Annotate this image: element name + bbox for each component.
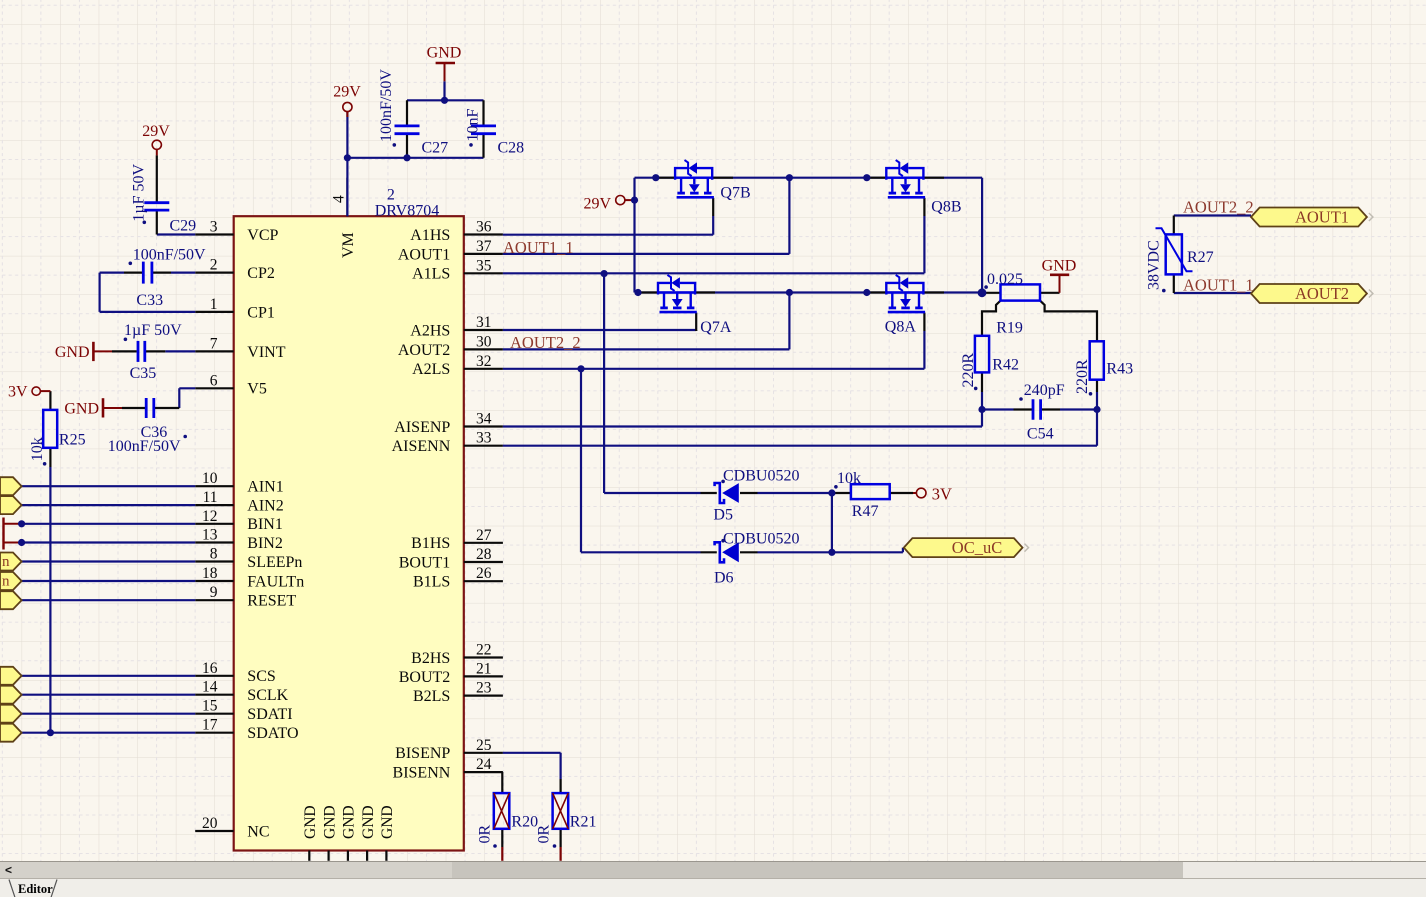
power rail stubs (left edge BIN1/BIN2) [4,518,22,550]
wire GND to cap rail [443,81,445,100]
svg-text:R47: R47 [852,503,879,520]
node sense junction (R19) [978,288,987,297]
svg-text:100nF/50V: 100nF/50V [108,438,181,455]
pin 32 A2LS [412,353,503,378]
svg-text:10: 10 [202,470,218,487]
svg-text:GND: GND [64,400,99,417]
pin link Q8B drain [867,177,886,179]
net label AOUT1_1 (pin 37) [503,238,574,257]
port (clipped, row 694.7) [0,686,22,704]
svg-text:0R: 0R [477,825,494,844]
wire left row y713.7 [22,713,196,715]
node junction (604.1,273.6) [601,270,608,277]
svg-text:8: 8 [210,546,218,563]
svg-text:220R: 220R [1074,359,1091,394]
svg-text:Q7B: Q7B [720,185,750,202]
wire AOUT2 net [503,293,790,350]
svg-text:15: 15 [202,698,218,715]
pin GND4 (IC bottom) [360,805,377,860]
svg-text:C28: C28 [498,140,525,157]
wire left row y486.2 [22,485,196,487]
wire A2LS to Q8A gate [503,331,925,369]
svg-text:14: 14 [202,679,218,696]
port (clipped, row 675.8) [0,667,22,685]
svg-text:3V: 3V [8,384,28,401]
svg-text:C54: C54 [1027,426,1054,443]
pin 37 AOUT1 [398,238,503,263]
pin GND1 (IC bottom) [302,805,319,860]
svg-text:R20: R20 [511,814,538,831]
pin 34 AISENP [394,411,503,436]
node junction (789.4,292.5) [786,289,793,296]
wire R47 node vertical [831,493,833,552]
IC value DRV8704 [375,202,440,219]
svg-text:10nF: 10nF [465,109,482,142]
wire A1LS to Q8B gate [503,216,925,273]
wire left row y561.5 [22,560,196,562]
wire AISENN [503,410,1097,446]
wire C36 to V5 [179,388,195,408]
ground stub R20 [501,847,503,861]
net label AOUT2_2 (R27 top) [1183,198,1254,217]
pin Q8A gate [923,313,925,331]
svg-text:20: 20 [202,815,218,832]
svg-text:BISENP: BISENP [395,745,450,762]
pin 12 BIN1 [195,508,283,533]
pin D5 right [740,492,758,494]
wire A1HS to Q7B gate [503,216,713,235]
svg-text:C33: C33 [136,292,163,309]
svg-text:DRV8704: DRV8704 [375,202,440,219]
svg-text:32: 32 [476,353,492,370]
svg-text:18: 18 [202,565,218,582]
svg-text:CDBU0520: CDBU0520 [723,530,799,547]
wire left row y732.7 [22,732,196,734]
svg-text:AISENN: AISENN [392,438,451,455]
svg-text:B2LS: B2LS [413,688,450,705]
svg-text:D5: D5 [713,507,733,524]
wire C29 to VCP [157,233,195,235]
wire left row y523.8 [22,523,196,525]
wire 29V high rail [635,178,983,293]
pin D5 left [701,492,717,494]
port OC_uC [904,538,1029,557]
svg-text:A1LS: A1LS [412,266,450,283]
svg-text:GND: GND [1042,257,1077,274]
pin 20 NC [195,815,269,840]
pin 6 V5 [195,372,267,397]
svg-text:33: 33 [476,430,492,447]
svg-text:V5: V5 [247,381,267,398]
port AOUT1 [1251,208,1373,227]
node junction (407,157.8) [403,154,410,161]
wire AOUT1 net [503,178,790,254]
node junction (655.8,177.7) [652,174,659,181]
pin GND3 (IC bottom) [341,805,358,860]
port (clipped, row 581.0) [0,572,22,590]
pin 36 A1HS [410,219,503,244]
IC designator 2 [387,187,395,204]
pin R25 bottom [49,448,51,467]
pin 23 B2LS [413,680,503,705]
varistor R27 38VDC [1146,228,1214,292]
svg-text:VCP: VCP [247,227,278,244]
pin R25 top [49,391,51,410]
pin Q7B gate [712,198,714,216]
svg-text:2: 2 [387,187,395,204]
svg-text:25: 25 [476,737,492,754]
svg-text:B1HS: B1HS [411,535,450,552]
pin 21 BOUT2 [399,660,503,685]
svg-text:29V: 29V [142,123,170,140]
svg-text:B1LS: B1LS [413,574,450,591]
op-amp U1 DRV8704 IC body [234,216,464,850]
power port 29V (bridge) [583,195,634,212]
svg-text:16: 16 [202,660,218,677]
svg-text:100nF/50V: 100nF/50V [133,247,206,264]
pin C28 leads [482,100,484,158]
svg-text:AOUT2: AOUT2 [1295,284,1349,303]
svg-text:6: 6 [210,372,218,389]
pin 9 RESET [195,584,296,609]
svg-text:220R: 220R [960,353,977,388]
svg-text:AOUT1: AOUT1 [398,246,450,263]
capacitor C35 1uF 50V [124,322,183,382]
node junction (831.9,493) [828,489,835,496]
node junction (21.6,542.5) [18,539,25,546]
node junction (831.9,552.3) [828,549,835,556]
wire AISENP [503,410,982,427]
transistor Q8A [885,275,925,335]
svg-text:1: 1 [210,296,218,313]
pin R42 bottom [981,372,983,392]
power port 3V (R25) [8,384,50,401]
wire left row y581.0 [22,580,196,582]
pin link Q8B source [923,177,944,179]
svg-text:AOUT2_2: AOUT2_2 [1183,198,1254,217]
svg-text:38VDC: 38VDC [1146,240,1163,290]
power port GND (C35) [55,342,112,361]
svg-text:31: 31 [476,314,492,331]
svg-text:27: 27 [476,527,492,544]
pin 13 BIN2 [195,527,283,552]
wire R43 bottom [1096,392,1098,410]
svg-text:R21: R21 [570,814,597,831]
pin Q7A gate [695,313,697,331]
svg-text:BOUT2: BOUT2 [399,669,451,686]
svg-text:GND: GND [379,805,396,839]
svg-text:12: 12 [202,508,218,525]
svg-text:Editor: Editor [18,882,53,896]
pin C35 leads [112,350,165,352]
svg-text:9: 9 [210,584,218,601]
node junction (638,292.5) [634,289,641,296]
svg-text:30: 30 [476,333,492,350]
svg-text:24: 24 [476,756,492,773]
pin 11 AIN2 [195,489,284,514]
power port 29V (C29) [142,123,170,156]
svg-text:SCLK: SCLK [247,687,288,704]
svg-text:R42: R42 [992,357,1019,374]
svg-text:0R: 0R [535,825,552,844]
pin 3 VCP [195,219,278,244]
svg-text:GND: GND [341,805,358,839]
pin link Q7A source [695,291,715,293]
node junction (50.4,732.7) [47,729,54,736]
pin R47 left [832,492,851,494]
resistor R43 220R [1074,341,1133,395]
wire left row y675.8 [22,675,196,677]
node junction (581,368.8) [577,365,584,372]
node junction (789.4,177.7) [786,174,793,181]
svg-text:36: 36 [476,219,492,236]
pin link Q7B source [712,177,733,179]
resistor R19 0.025 [984,271,1040,336]
svg-text:AOUT1: AOUT1 [1295,208,1349,227]
svg-text:n: n [2,574,10,590]
pin R27 bottom [1173,274,1175,293]
pin 7 VINT [195,335,286,360]
wire C54 row [982,408,1097,410]
wire left row y542.5 [22,541,196,543]
wire R27 bottom to port [1174,292,1251,294]
svg-text:10k: 10k [29,437,46,461]
port AOUT2 [1251,284,1373,303]
pin 1 CP1 [195,296,275,321]
svg-text:Q8A: Q8A [885,318,917,335]
svg-text:AOUT1_1: AOUT1_1 [1183,276,1254,295]
svg-text:GND: GND [360,805,377,839]
capacitor C33 100nF/50V [129,247,207,309]
svg-text:CDBU0520: CDBU0520 [723,467,799,484]
svg-text:29V: 29V [333,84,361,101]
power port GND (R19) [1042,257,1077,292]
svg-text:17: 17 [202,717,218,734]
svg-text:VM: VM [340,232,357,258]
svg-text:29V: 29V [583,195,611,212]
pin R47 right [890,492,913,494]
svg-text:A1HS: A1HS [410,227,450,244]
svg-text:A2HS: A2HS [410,322,450,339]
svg-text:D6: D6 [714,570,734,587]
pin R19 right [1040,292,1060,294]
svg-text:4: 4 [331,195,348,203]
wire A2LS drop to D6 [581,369,701,553]
wire A1LS drop to D5 [604,274,700,493]
pin 22 B2HS [411,642,503,667]
svg-text:A2LS: A2LS [412,361,450,378]
wire C33 loop CP2-CP1 [100,273,196,312]
port (clipped, row 600.2) [0,591,22,609]
power port GND (top) [427,45,462,82]
pin D6 left [701,551,717,553]
node junction (21.6,523.8) [18,520,25,527]
pin 30 AOUT2 [398,333,503,358]
svg-text:CP2: CP2 [247,265,275,282]
capacitor C27 100nF/50V [378,69,448,157]
svg-text:BIN2: BIN2 [247,535,283,552]
port (clipped, row 486.2) [0,477,22,495]
svg-text:21: 21 [476,660,492,677]
node junction (866.8,292.5) [863,289,870,296]
svg-text:GND: GND [321,805,338,839]
transistor Q7A [658,275,732,336]
svg-text:35: 35 [476,257,492,274]
svg-text:13: 13 [202,527,218,544]
svg-text:28: 28 [476,546,492,563]
svg-text:23: 23 [476,680,492,697]
wire left row y505.1 [22,504,196,506]
node junction (982,409.5) [978,406,985,413]
svg-text:FAULTn: FAULTn [247,573,304,590]
pin D6 right [740,551,758,553]
svg-text:B2HS: B2HS [411,650,450,667]
svg-text:26: 26 [476,565,492,582]
wire D6 to OC node [758,548,903,553]
wire left row y600.2 [22,599,196,601]
kelvin link right [1040,301,1097,342]
pin C29 leads [156,155,158,234]
wire BISENP to R21 [503,753,561,779]
resistor R20 0R [477,793,539,848]
svg-text:100nF/50V: 100nF/50V [378,69,395,142]
ground stub R21 [559,847,561,861]
svg-text:AIN1: AIN1 [247,479,283,496]
diode D5 CDBU0520 [713,467,799,523]
wire C35 to VINT [165,350,195,352]
wire R42 bottom [981,392,983,410]
svg-text:C27: C27 [422,140,449,157]
pin link Q7B drain [656,177,675,179]
svg-text:BOUT1: BOUT1 [399,554,451,571]
pin 2 CP2 [195,257,275,282]
node junction (1097,409.5) [1093,406,1100,413]
pin 18 FAULTn [195,565,304,590]
pin C33 leads [124,272,171,274]
svg-text:SDATI: SDATI [247,706,292,723]
wire 29V to VM [346,112,348,216]
svg-text:SDATO: SDATO [247,725,298,742]
svg-text:VINT: VINT [247,344,285,361]
svg-text:SLEEPn: SLEEPn [247,554,302,571]
svg-text:BISENN: BISENN [393,765,451,782]
node junction (866.8,177.7) [863,174,870,181]
resistor R47 10k [834,470,890,520]
pin 24 BISENN [393,756,503,781]
svg-text:11: 11 [203,489,218,506]
svg-text:Q8B: Q8B [931,199,961,216]
transistor Q7B [675,160,751,201]
net label AOUT2_2 (pin 30) [510,333,581,352]
pin R43 bottom [1096,380,1098,392]
pin link Q8A drain [867,291,886,293]
svg-text:AOUT1_1: AOUT1_1 [503,238,574,257]
svg-text:BIN1: BIN1 [247,516,283,533]
pin 8 SLEEPn [195,546,302,571]
resistor R21 0R [535,793,596,848]
svg-text:AISENP: AISENP [394,419,450,436]
wire top cap rail [407,99,484,101]
svg-text:R25: R25 [59,431,86,448]
port (clipped, row 505.1) [0,496,22,514]
svg-text:SCS: SCS [247,668,275,685]
pin GND2 (IC bottom) [321,805,338,860]
pin 35 A1LS [412,257,503,282]
pin C54 leads [1014,408,1061,410]
svg-text:3: 3 [210,219,218,236]
transistor Q8B [886,160,961,216]
pin 15 SDATI [195,698,292,723]
pin link Q7A drain [638,291,658,293]
wire bottom cap rail [347,157,483,159]
pin Q8B gate [923,198,925,216]
port (clipped, row 561.5) [0,553,22,571]
pin R21 bottom [559,829,561,847]
power port 29V (VM) [333,84,361,118]
svg-text:2: 2 [210,257,218,274]
svg-text:34: 34 [476,411,492,428]
resistor R42 220R [960,336,1019,390]
pin 27 B1HS [411,527,503,552]
svg-text:n: n [2,554,10,570]
pin 16 SCS [195,660,276,685]
capacitor C54 240pF [1019,382,1065,443]
node junction (347.4,157.8) [344,154,351,161]
pin 28 BOUT1 [399,546,503,571]
net label AOUT1_1 (R27 bottom) [1183,276,1254,295]
port (clipped, row 713.7) [0,705,22,723]
svg-text:GND: GND [302,805,319,839]
svg-text:CP1: CP1 [247,304,275,321]
editor tab bar [0,878,1426,897]
wire R25 to SDATO [49,467,51,733]
wire low rail [635,291,983,293]
wire A2HS to Q7A gate [503,330,696,331]
wire left row y694.7 [22,694,196,696]
svg-text:GND: GND [55,344,90,361]
svg-text:C35: C35 [130,365,157,382]
svg-text:AOUT2: AOUT2 [398,342,450,359]
pin C27 leads [406,100,408,158]
svg-text:AIN2: AIN2 [247,498,283,515]
pin GND5 (IC bottom) [379,805,396,860]
svg-text:0.025: 0.025 [987,271,1023,288]
svg-text:240pF: 240pF [1024,382,1065,399]
power port GND (C36) [64,398,122,417]
pin R19 left [982,292,1001,294]
editor horizontal scrollbar [0,861,1426,879]
svg-text:7: 7 [210,335,218,352]
svg-text:GND: GND [427,45,462,62]
svg-text:NC: NC [247,823,269,840]
pin 33 AISENN [392,430,503,455]
diode D6 CDBU0520 [714,530,799,586]
pin R27 top [1173,216,1175,235]
pin R20 bottom [501,829,503,847]
capacitor C28 10nF [465,109,525,157]
power port 3V (R47) [913,484,952,503]
svg-text:RESET: RESET [247,593,296,610]
pin 31 A2HS [410,314,503,339]
svg-text:10k: 10k [837,470,861,487]
pin R21 top [559,779,561,793]
capacitor C29 1uF 50V [131,163,197,234]
svg-text:22: 22 [476,642,492,659]
node junction (444.5,100.3) [441,97,448,104]
pin link Q8A source [923,291,944,293]
svg-text:R27: R27 [1187,249,1214,266]
pin 14 SCLK [195,679,288,704]
